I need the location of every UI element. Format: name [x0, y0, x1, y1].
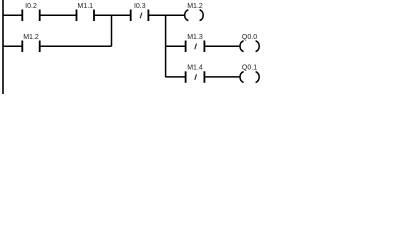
contact I0.3 (NC)	[131, 3, 149, 21]
wire M1.1 to I0.3	[94, 14, 131, 16]
wire M1.4 to coil Q0.1	[204, 76, 240, 78]
coil Q0.0	[240, 34, 259, 52]
contact M1.1	[77, 3, 95, 21]
contact I0.2	[22, 3, 39, 21]
wire branch to M1.4	[166, 76, 186, 78]
left power rail	[2, 0, 4, 94]
contact M1.4 (NC)	[186, 65, 205, 83]
svg-text:M1.1: M1.1	[78, 3, 94, 10]
coil Q0.1	[240, 65, 259, 83]
wire rung2 rail to M1.2 contact	[3, 45, 22, 47]
wire M1.2 contact to junction	[40, 45, 112, 47]
svg-text:Q0.0: Q0.0	[242, 34, 257, 41]
contact M1.3 (NC)	[186, 34, 205, 52]
wire M1.3 to coil Q0.0	[204, 45, 240, 47]
branch vertical right	[165, 15, 167, 77]
wire branch to M1.3	[166, 45, 186, 47]
wire I0.2 to M1.1	[40, 14, 77, 16]
wire rung1 rail to I0.2	[3, 14, 22, 16]
wire I0.3 to coil M1.2	[148, 14, 184, 16]
svg-text:M1.2: M1.2	[23, 34, 39, 41]
svg-text:Q0.1: Q0.1	[242, 65, 257, 72]
contact M1.2	[22, 34, 39, 52]
svg-text:I0.3: I0.3	[134, 3, 146, 10]
branch vertical rung1-rung2 junction	[111, 15, 113, 46]
svg-text:M1.2: M1.2	[187, 3, 203, 10]
svg-text:I0.2: I0.2	[25, 3, 37, 10]
svg-text:M1.4: M1.4	[187, 65, 203, 72]
svg-text:M1.3: M1.3	[187, 34, 203, 41]
coil M1.2	[185, 3, 204, 21]
